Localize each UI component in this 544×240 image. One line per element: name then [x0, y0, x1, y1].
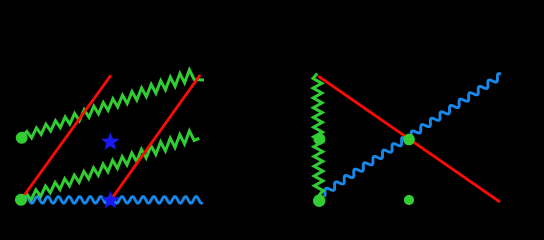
gluon zigzag line G3 (right diagram, vertical)	[313, 74, 323, 196]
star vertex D (left diagram, bottom)	[101, 191, 119, 209]
gluon zigzag line G2 (left diagram, lower)	[22, 131, 200, 200]
fermion line F1 (left diagram, left red)	[21, 76, 110, 200]
photon wavy line W1 (left diagram, horizontal)	[25, 197, 202, 204]
photon wavy line W2 (right diagram, diagonal)	[325, 74, 500, 196]
vertex dot A (left diagram, mid-left)	[16, 132, 28, 144]
vertex dot F (right diagram, bottom of zigzag)	[313, 195, 325, 207]
fermion line F3 (right diagram red)	[319, 77, 499, 202]
vertex dot E (right diagram, middle of zigzag)	[314, 133, 326, 145]
star vertex C (left diagram, middle)	[101, 132, 119, 150]
fermion line F2 (left diagram, right red)	[110, 76, 199, 201]
vertex dot G (right diagram, wavy-red crossing)	[403, 134, 415, 146]
vertex dot H (right diagram, bottom middle)	[404, 195, 414, 205]
vertex dot B (left diagram, bottom-left)	[15, 194, 27, 206]
gluon zigzag line G1 (left diagram, upper)	[22, 70, 204, 138]
